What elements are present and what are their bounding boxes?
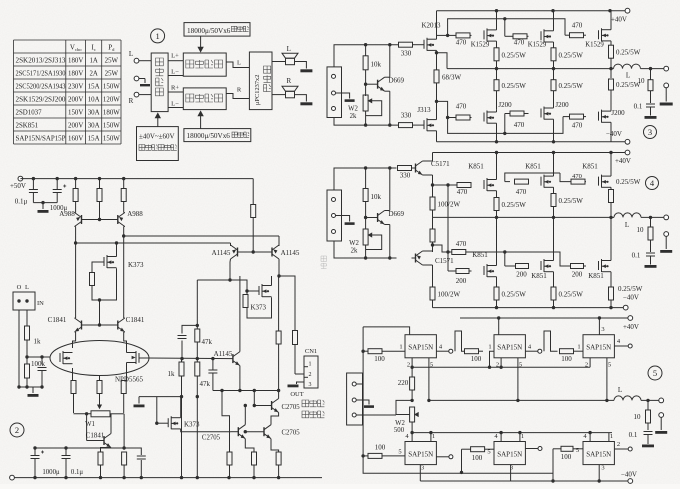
svg-text:2: 2: [617, 441, 620, 448]
section 4 connector ground: [336, 216, 350, 222]
resistor 0.25/5W upper no2: [551, 48, 556, 61]
svg-text:2SK851: 2SK851: [16, 123, 39, 130]
speaker return terminal sec3: [664, 83, 669, 88]
MOSFET K1529 no2: [540, 31, 542, 40]
resistor 470 gate K1529 no3: [565, 34, 570, 36]
svg-text:−40V: −40V: [623, 294, 639, 302]
transistor A988 left: [81, 215, 83, 224]
resistor 470 lower-mid sec4: [433, 245, 452, 252]
output rail sec3: [447, 68, 614, 70]
resistor 470 gate J200 no1: [448, 117, 456, 119]
MOSFET K1529 no1: [483, 30, 485, 39]
resistor 100 bottom no3: [553, 448, 561, 450]
box2 pin5 wire down: [517, 358, 519, 401]
wire gate rail to no6: [505, 252, 571, 266]
svg-text:2SD1037: 2SD1037: [16, 110, 43, 117]
svg-text:J200: J200: [498, 101, 512, 109]
resistor 10 sec4: [650, 217, 652, 227]
sec5 connector ground: [356, 400, 369, 405]
capacitor 0.1u bottom: [65, 448, 67, 456]
A1145 pair base junction: [238, 251, 273, 253]
svg-text:2: 2: [496, 362, 499, 369]
junction W2 bottom on rail3: [410, 431, 413, 434]
wire K2013 drain to +40V rail: [436, 11, 438, 40]
ground 0.1 sec5: [642, 445, 654, 448]
svg-text:A1145: A1145: [214, 350, 233, 358]
svg-text:K851: K851: [531, 272, 547, 280]
circled 3 label: [644, 126, 657, 139]
circled 5 label: [648, 366, 662, 380]
svg-text:0.25/5W: 0.25/5W: [559, 82, 584, 90]
resistor 470 gate J200 no3: [563, 116, 570, 118]
JFET K373 no1: [103, 257, 105, 266]
svg-text:150V: 150V: [68, 110, 83, 117]
svg-text:200V: 200V: [68, 123, 83, 130]
wire sec3 top feed: [334, 45, 399, 67]
svg-text:L−: L−: [171, 69, 179, 76]
svg-text:5: 5: [576, 447, 579, 454]
resistor 200 gate K851 no4: [447, 252, 449, 271]
svg-text:200: 200: [572, 271, 583, 279]
svg-text:330: 330: [401, 112, 412, 120]
terminal after botbox2: [525, 448, 537, 450]
table of transistor specs: [14, 39, 122, 41]
svg-text:330: 330: [400, 172, 411, 180]
pin 3 wire box2: [498, 318, 500, 335]
+40V terminal sec5: [628, 316, 633, 321]
A1145 left emitter wire: [230, 243, 232, 246]
-40V rail sec4: [433, 307, 624, 309]
svg-text:100: 100: [471, 355, 482, 363]
SAP15N box bottom no3: [583, 442, 614, 465]
JFET source resistors below oval: [72, 368, 74, 381]
MOSFET J200 no2: [540, 109, 542, 118]
current amplifier box L (dianliu fangda): [183, 53, 226, 76]
svg-text:10k: 10k: [371, 61, 382, 69]
JFET left in oval: [59, 353, 61, 362]
resistor 200 gate K851 no6: [571, 264, 584, 269]
botbox3 pin3 wire: [598, 465, 600, 481]
svg-text:200: 200: [456, 277, 467, 285]
svg-text:0.25/5W: 0.25/5W: [559, 52, 584, 60]
svg-text:μPC1237x2: μPC1237x2: [254, 75, 261, 105]
resistor 0.25/5W upper no3: [609, 45, 614, 58]
svg-text:K2013: K2013: [421, 22, 441, 30]
node rail y236 to A1145 right emitter: [122, 234, 125, 237]
dual JFET NPD5565 oval: [50, 341, 149, 376]
svg-text:15A: 15A: [88, 136, 100, 143]
resistor emitter no2: [252, 452, 257, 465]
capacitor 0.1 sec4: [646, 252, 655, 254]
svg-text:0.25/5W: 0.25/5W: [616, 49, 641, 57]
transistor C1841 right (input pair): [117, 321, 119, 330]
wire sec3 bottom feed: [334, 118, 399, 126]
botbox2 pin3 wire: [510, 465, 512, 481]
sec5 lower rail A: [363, 456, 553, 481]
svg-text:100: 100: [375, 444, 386, 452]
svg-text:±40V~±60V: ±40V~±60V: [139, 133, 175, 141]
svg-text:1: 1: [155, 31, 159, 41]
svg-text:2: 2: [407, 362, 410, 369]
svg-text:−40V: −40V: [621, 471, 637, 479]
K373 no3 gate riser: [155, 422, 158, 425]
svg-text:A988: A988: [59, 210, 75, 218]
box3 pin5 wire down: [606, 358, 608, 401]
resistor 1k feedback: [181, 359, 183, 362]
wire sec4 top feed: [334, 168, 397, 190]
svg-text:0.1μ: 0.1μ: [15, 198, 28, 206]
resistor 1k input: [25, 326, 30, 340]
svg-text:K373: K373: [251, 304, 267, 312]
node rail y243 to A1145 left emitter: [74, 241, 77, 244]
current amplifier box R (dianliu fangda): [183, 88, 226, 110]
svg-text:L: L: [625, 221, 629, 229]
unlabeled resistor mid sec4: [432, 217, 434, 229]
resistor 0.25/5W sec4 lower no2: [551, 287, 556, 300]
sec5 box1 pin3 hook: [363, 327, 410, 335]
wire K2013 source to output riser: [437, 53, 448, 69]
svg-text:SAP15N/SAP15P: SAP15N/SAP15P: [16, 136, 66, 143]
wire W1 right down to node: [123, 414, 125, 448]
svg-text:C1841: C1841: [126, 316, 145, 324]
wire L to voltage amp: [139, 60, 152, 62]
K373 no3 source to C2705 base: [181, 429, 231, 432]
link box1 to box2: [455, 331, 465, 351]
bottom rail sec2: [10, 475, 15, 480]
driver bus lineA: [213, 390, 279, 392]
wire pin4 to terminal box3: [614, 345, 628, 347]
faint page-edge marks: [321, 256, 327, 269]
svg-text:0.25/5W: 0.25/5W: [616, 81, 641, 89]
capacitor 1000u supply: [56, 179, 58, 190]
terminal after box3: [628, 344, 632, 348]
svg-text:0.25/5W: 0.25/5W: [502, 52, 527, 60]
svg-text:0.25/5W: 0.25/5W: [618, 285, 643, 293]
resistor 0.25/5W sec4 lower no1: [494, 287, 499, 300]
capacitor input filter: [40, 355, 43, 358]
C2705 lower-left base wire: [231, 431, 238, 433]
svg-text:IN: IN: [37, 300, 44, 307]
svg-text:R: R: [286, 77, 291, 85]
CN1 dest text (to power amp board): [302, 400, 324, 407]
pin 3 wire box3: [598, 318, 600, 335]
svg-text:10: 10: [634, 413, 642, 421]
K373 no2 drain up: [271, 276, 273, 286]
svg-text:2: 2: [15, 425, 19, 435]
bias wire y280: [197, 280, 247, 287]
resistor 330 top sec3: [399, 42, 413, 47]
resistor 470 gate K851 no1: [448, 184, 457, 186]
sec5 lower rail B: [420, 480, 628, 482]
resistor 100 bottom no1: [363, 455, 368, 457]
resistor 100k: [26, 357, 28, 364]
svg-text:0.25/5W: 0.25/5W: [502, 291, 527, 299]
svg-text:5: 5: [653, 368, 657, 378]
svg-text:470: 470: [572, 122, 583, 130]
JFET K373 no3: [167, 418, 169, 427]
svg-text:180V: 180V: [68, 71, 83, 78]
J200 no2 wires: [553, 107, 555, 109]
adjustable class-A power supply box: [137, 127, 179, 161]
botbox3 feed wire: [552, 449, 554, 473]
svg-text:0.25/5W: 0.25/5W: [502, 82, 527, 90]
svg-text:3: 3: [421, 465, 424, 472]
svg-text:K851: K851: [582, 163, 598, 171]
botbox2 feed from rail A: [461, 449, 463, 472]
svg-text:30A: 30A: [88, 123, 100, 130]
+40V terminal sec4: [625, 150, 630, 155]
svg-text:100: 100: [472, 454, 483, 462]
svg-text:0.1: 0.1: [634, 103, 643, 111]
svg-text:L: L: [25, 284, 29, 291]
resistor top feed right: [252, 179, 254, 205]
junction node D669 base: [364, 83, 367, 86]
svg-text:0.1: 0.1: [629, 431, 638, 439]
resistor load A988 left: [75, 179, 77, 189]
svg-text:180V: 180V: [68, 58, 83, 65]
resistor 100 bottom no2: [462, 448, 471, 450]
svg-text:+40V: +40V: [615, 157, 631, 165]
wire to output terminal sec5: [641, 399, 659, 401]
speaker terminal sec5: [659, 413, 664, 418]
J200 no1 wires: [496, 109, 498, 112]
svg-text:0.1μ: 0.1μ: [71, 469, 83, 476]
resistor 330 bottom sec3: [399, 123, 413, 128]
svg-text:L: L: [129, 50, 133, 58]
bottom row box2: risers: [500, 433, 502, 442]
C2705 lower-left emitter: [245, 439, 254, 452]
svg-text:2: 2: [585, 362, 588, 369]
+40V rail sec4: [433, 152, 626, 154]
K851 no3 wires: [610, 153, 612, 177]
output terminal sec4: [664, 215, 669, 220]
svg-text:1: 1: [521, 433, 524, 440]
speaker L ground: [295, 62, 307, 69]
svg-text:1: 1: [309, 362, 312, 368]
svg-text:K373: K373: [184, 421, 200, 429]
wire pin4 to terminal box1: [436, 350, 448, 352]
junction W2-500 top: [410, 399, 413, 402]
svg-text:R: R: [237, 87, 242, 94]
svg-text:SAP15N: SAP15N: [497, 451, 522, 459]
K851 no2 wires: [553, 153, 555, 177]
J200 no3 wires: [610, 110, 612, 112]
ground speaker sec4: [660, 250, 672, 253]
link box2 to box3: [544, 331, 558, 351]
svg-text:A1145: A1145: [212, 249, 231, 257]
wire D669-2 collector: [385, 210, 390, 212]
svg-text:1k: 1k: [34, 338, 42, 346]
svg-text:0.25/5W: 0.25/5W: [502, 201, 527, 209]
JFET right in oval (mirrored): [139, 357, 148, 359]
ground bar lineB: [138, 397, 140, 404]
input connector box sec2: [13, 292, 35, 310]
svg-text:3: 3: [309, 382, 312, 388]
SAP15N box top no2: [494, 335, 525, 358]
svg-text:30A: 30A: [88, 110, 100, 117]
svg-text:470: 470: [456, 240, 467, 248]
arrow supply to voltage amp: [157, 115, 159, 127]
svg-text:SAP15N: SAP15N: [586, 451, 611, 459]
MOSFET K851 no5: [540, 261, 542, 270]
MOSFET K851 no4: [483, 266, 485, 275]
svg-text:1k: 1k: [168, 370, 176, 378]
svg-text:2: 2: [309, 372, 312, 378]
wire K2013 source down: [436, 50, 438, 52]
resistor 100 top no1: [363, 350, 368, 352]
+50V terminal: [18, 176, 23, 181]
A1145 no3 emitter down: [239, 366, 241, 391]
svg-text:+40V: +40V: [623, 323, 639, 331]
resistor 0.25/5W sec4 upper no3: [609, 190, 614, 203]
transistor C2705 lower-left: [237, 427, 239, 436]
resistor 100 top no3: [560, 349, 574, 354]
resistor below node: [122, 452, 127, 465]
svg-text:C5171: C5171: [431, 160, 450, 168]
svg-text:100: 100: [374, 355, 385, 363]
wire resistor chain to CN1 pin2: [293, 331, 298, 345]
output rail sec4: [433, 216, 615, 218]
MOSFET K851 no6: [598, 261, 600, 270]
+50V rail sec2: [20, 178, 253, 180]
lower 0.25/5W no2: [553, 69, 555, 80]
svg-text:2SC5200/2SA1943: 2SC5200/2SA1943: [16, 84, 67, 91]
CN1 connector box: [304, 356, 318, 388]
K373 no1 drain wire: [116, 243, 118, 257]
svg-text:D669: D669: [389, 77, 405, 85]
resistor 470 gate K1529 no2: [505, 35, 513, 37]
-40V terminal sec4: [623, 305, 628, 310]
svg-text:NPD5565: NPD5565: [115, 376, 144, 384]
CN1 pin3 ground: [297, 382, 305, 384]
svg-text:A1145: A1145: [281, 249, 300, 257]
svg-text:SAP15N: SAP15N: [497, 344, 522, 352]
svg-text:1: 1: [399, 344, 402, 351]
MOSFET J313: [423, 120, 425, 129]
svg-text:5: 5: [519, 362, 522, 369]
svg-text:470: 470: [572, 22, 583, 30]
transistor A1145 right of pair: [271, 248, 273, 257]
-40V terminal sec3: [625, 139, 630, 144]
K373 no2 gate network: [245, 289, 248, 292]
svg-text:2SC5171/2SA1930: 2SC5171/2SA1930: [16, 71, 67, 78]
MOSFET K851 no2: [540, 177, 542, 186]
resistor emitter no3: [276, 452, 281, 465]
JFET K373 no2: [258, 286, 260, 295]
C2705 upper collector: [278, 391, 280, 399]
svg-text:J200: J200: [555, 101, 569, 109]
svg-text:470: 470: [514, 121, 525, 129]
MOSFET K851 no1: [483, 180, 485, 189]
K1529 no1 drain/source wires: [496, 11, 498, 30]
resistor 10k sec4: [365, 168, 367, 189]
svg-text:C1571: C1571: [435, 257, 454, 265]
speaker terminal sec4: [664, 232, 669, 237]
inductor L sec4: [614, 213, 641, 218]
resistor tail middle: [99, 179, 101, 189]
ground 0.1 sec4: [645, 265, 657, 268]
gate bias rail bottom (J200 gates): [437, 101, 564, 133]
transistor A988 right: [117, 215, 119, 224]
svg-text:D669: D669: [389, 210, 405, 218]
C2705 lower-left collector riser: [244, 406, 246, 425]
transistor C5171: [415, 164, 417, 173]
svg-text:2SK2013/2SJ313: 2SK2013/2SJ313: [16, 58, 67, 65]
resistor 0.25/5W upper no1: [494, 48, 499, 61]
svg-text:+50V: +50V: [10, 182, 26, 190]
resistor 100 top no2: [465, 349, 479, 354]
svg-text:OUT: OUT: [290, 391, 303, 398]
svg-text:470: 470: [456, 39, 467, 47]
power board box bottom 18000u/50Vx6: [184, 129, 251, 142]
SAP15N box bottom no2: [494, 442, 525, 465]
resistor 470 gate K851 no2: [505, 181, 510, 183]
box1 pin2 wire down: [411, 358, 413, 367]
wire A988 left collector down to C1841: [75, 243, 77, 311]
circled 2 label: [10, 423, 24, 437]
wire C5171 collector to +40V rail sec4: [423, 160, 433, 162]
wire current amp L to protection, node L: [226, 62, 249, 68]
junction dots sec3 bottom feed: [364, 123, 367, 126]
K851 no5 wires: [553, 217, 555, 260]
svg-text:C2705: C2705: [282, 430, 301, 437]
SAP15N box bottom no1: [405, 442, 436, 465]
svg-text:1: 1: [577, 344, 580, 351]
transistor D669 sec3: [366, 83, 378, 85]
svg-text:L: L: [237, 60, 241, 67]
svg-text:CN1: CN1: [305, 348, 317, 355]
svg-text:100/2W: 100/2W: [438, 291, 461, 299]
resistor 330 top sec4: [398, 166, 412, 171]
svg-text:47k: 47k: [202, 338, 213, 346]
arrow from power box to current amp: [200, 36, 202, 50]
MOSFET J200 no3: [598, 112, 600, 121]
svg-text:150W: 150W: [103, 136, 120, 143]
resistor 470 gate K851 no3: [560, 173, 571, 182]
svg-text:330: 330: [401, 49, 412, 57]
sec5 connector: [347, 373, 363, 425]
wire pin4 to terminal box2: [525, 350, 537, 352]
wire connector to bus: [356, 383, 363, 385]
output rail sec5: [429, 399, 614, 401]
arrow power box to current amp R: [200, 113, 202, 129]
svg-text:K851: K851: [468, 163, 484, 171]
svg-text:1A: 1A: [89, 58, 97, 65]
MOSFET K1529 no3: [598, 30, 600, 39]
ground bus lineB: [139, 396, 182, 398]
svg-text:L: L: [618, 386, 622, 394]
gate bias rail top (K1529 gates): [437, 34, 448, 36]
+40V terminal sec3: [625, 8, 630, 13]
wires voltage amp to current amp L: [168, 60, 183, 62]
capacitor 1000u bottom: [34, 448, 36, 456]
wire D669 collector to top feed: [385, 76, 390, 78]
svg-text:K1529: K1529: [471, 42, 490, 49]
svg-text:O: O: [17, 284, 22, 291]
K1529 no3 drain/source wires: [610, 11, 612, 30]
capacitor right of node: [124, 448, 141, 455]
svg-text:2k: 2k: [350, 113, 357, 120]
branch from lineA left end: [222, 391, 230, 453]
A1145 left collector down: [229, 259, 232, 280]
svg-text:2SK1529/2SJ200: 2SK1529/2SJ200: [16, 97, 67, 104]
resistor load A988 right: [123, 179, 125, 189]
svg-text:10A: 10A: [88, 97, 100, 104]
circled 4 label: [646, 177, 659, 190]
svg-text:1: 1: [432, 433, 435, 440]
K851 no1 wires: [496, 153, 498, 180]
K373 no1 gate network: [92, 262, 104, 273]
